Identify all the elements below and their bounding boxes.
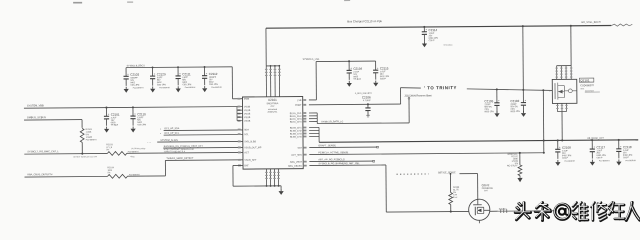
svg-text:2839S2GL: 2839S2GL <box>268 112 279 114</box>
watermark 狂 <box>609 202 625 219</box>
svg-text:SCL: SCL <box>244 134 249 136</box>
wire gate drop <box>477 174 479 200</box>
svg-text:C0G-JPN: C0G-JPN <box>130 85 139 87</box>
capacitor C2103 <box>123 68 139 87</box>
svg-text:NO STUFF: NO STUFF <box>507 165 519 167</box>
wire to Q2102 gate <box>459 173 477 175</box>
svg-text:LSB: LSB <box>297 100 302 102</box>
svg-text:Bus Charged C2113 on Ppk: Bus Charged C2113 on Ppk <box>347 19 382 23</box>
wire KBA_CBUS_DETECT left <box>24 175 107 178</box>
wire bypass cap tie line <box>126 66 232 69</box>
wire I2C3_AP_SCL <box>164 134 243 137</box>
svg-text:BACKBOA_RG_P23BCLG_CBCE_DET: BACKBOA_RG_P23BCLG_CBCE_DET <box>164 145 204 148</box>
svg-text:0603-JPN: 0603-JPN <box>510 111 520 113</box>
capacitor C2106 <box>367 104 369 108</box>
wire rail to wireA at C2102 <box>522 26 525 90</box>
wire ABT_AP_RG_P23BCLG <box>309 160 373 163</box>
ground C2105 <box>494 111 499 117</box>
wire rail B <box>319 140 638 143</box>
wire Q2102 bottom stub <box>478 220 480 223</box>
svg-text:BLKA_CH2: BLKA_CH2 <box>290 115 302 118</box>
ground C2101 <box>104 127 109 133</box>
svg-text:C0G-JPN: C0G-JPN <box>182 84 191 86</box>
svg-text:5%: 5% <box>106 149 109 151</box>
resistor R2105 body <box>449 192 453 204</box>
watermark 人 <box>626 202 640 220</box>
svg-text:C2108: C2108 <box>562 146 571 150</box>
svg-text:SMBUS_SCBUS: SMBUS_SCBUS <box>27 116 46 119</box>
node SYSTEM_VBB/C2110 <box>132 106 134 108</box>
capacitor C2111 <box>175 67 191 86</box>
ground C2108 <box>555 160 560 166</box>
wire SMBUS_SCBUS <box>24 119 82 121</box>
ground C2104 <box>347 81 352 87</box>
svg-text:SYB_SLBB: SYB_SLBB <box>244 141 256 143</box>
capacitor C2101 <box>104 107 120 126</box>
wire Q2101 source to railB <box>561 112 563 141</box>
ground C2112 <box>202 86 207 92</box>
svg-text:C2111: C2111 <box>182 72 191 76</box>
wire BAPMERG down <box>385 165 387 212</box>
svg-text:a: a <box>160 133 161 135</box>
svg-text:ABG_CBLBG: ABG_CBLBG <box>288 165 302 168</box>
wire BLKA bracket <box>316 113 318 124</box>
node tie/C2112 <box>204 66 206 68</box>
wire SMBUS to R2101 <box>81 120 83 128</box>
svg-text:C2110: C2110 <box>137 112 146 116</box>
node railB/C2117 <box>591 139 593 141</box>
svg-text:BLKA_CH3: BLKA_CH3 <box>290 118 302 121</box>
capacitor C2102 <box>510 90 526 113</box>
wire P23BCLA_ACTIVE_SENSE <box>309 153 543 155</box>
node wireA branch <box>542 89 544 91</box>
node R2101/CNT net <box>81 153 83 155</box>
ground C2129 <box>150 86 155 92</box>
resistor R2103 <box>107 151 127 155</box>
svg-text:SYSBCLB_BATR_LG: SYSBCLB_BATR_LG <box>321 120 343 123</box>
svg-text:Poo-BBRHH: Poo-BBRHH <box>159 87 170 89</box>
svg-text:C2115: C2115 <box>380 66 389 70</box>
node railB/C2108 <box>557 139 559 141</box>
wire off-page squiggle <box>611 24 632 26</box>
wire R2104 to corner <box>127 175 165 177</box>
capacitor C2108 <box>555 140 572 159</box>
svg-text:Poo-BBRHH: Poo-BBRHH <box>211 87 222 89</box>
svg-text:C06-P: C06-P <box>429 40 436 42</box>
svg-text:C06-P: C06-P <box>623 157 630 159</box>
svg-text:Poo-BBRHH: Poo-BBRHH <box>625 160 636 162</box>
svg-text:ABT_AP_RG_P23BCLG: ABT_AP_RG_P23BCLG <box>318 158 344 161</box>
watermark @ <box>554 204 570 220</box>
capacitor C2112 <box>202 67 218 86</box>
svg-text:Poo-BBRHH: Poo-BBRHH <box>86 139 97 141</box>
svg-text:4.7U/XF: 4.7U/XF <box>363 100 372 102</box>
svg-text:DETECT WHEN I2C xxx OFF: DETECT WHEN I2C xxx OFF <box>73 156 98 158</box>
svg-text:C2129: C2129 <box>157 72 166 76</box>
svg-text:SYSBCLT_RG_BWC_CNT_L: SYSBCLT_RG_BWC_CNT_L <box>27 150 59 153</box>
svg-text:S/GB11: S/GB11 <box>499 209 508 211</box>
Q2102 source/drain exits <box>484 209 490 211</box>
wire CNT net to ACT pin <box>127 151 243 154</box>
svg-text:C2102: C2102 <box>510 99 519 103</box>
node tie/C2104 <box>348 60 350 62</box>
fuse ticks <box>498 209 557 213</box>
wire BAT/bottom bus <box>233 164 243 166</box>
node ACTIVE corner <box>543 152 545 154</box>
svg-text:VSUB: VSUB <box>244 117 251 119</box>
wire dashed GBT/GE_SENSE <box>396 173 428 175</box>
svg-text:C06-P: C06-P <box>380 78 387 80</box>
Q2102 symbol <box>473 199 482 205</box>
capacitor C2104 <box>346 61 362 81</box>
svg-text:SAT: SAT <box>297 147 302 150</box>
ground C2110 <box>131 126 136 132</box>
wire SYSBCLB_RG_BAPMERG_ABT_CBL <box>309 164 385 167</box>
svg-text:PORT: PORT <box>295 105 302 107</box>
R2102 down arrow <box>519 176 521 178</box>
svg-text:C2101: C2101 <box>111 113 120 117</box>
node SYSTEM_VBB/C2101 <box>105 107 107 109</box>
node railB/C2118 <box>618 139 620 141</box>
svg-text:TP-BLR: TP-BLR <box>353 79 361 81</box>
svg-text:BLKB_CH4: BLKB_CH4 <box>290 137 302 139</box>
svg-text:Q2102: Q2102 <box>482 183 490 187</box>
svg-text:I2C3_AP_SDA: I2C3_AP_SDA <box>164 127 180 130</box>
svg-text:ACT: ACT <box>244 151 249 154</box>
svg-text:GBT/GE_SENSE: GBT/GE_SENSE <box>438 172 456 174</box>
svg-text:Poo-BBRHH: Poo-BBRHH <box>185 87 196 89</box>
svg-text:VSUB_OUT_MP: VSUB_OUT_MP <box>244 147 262 149</box>
svg-text:new-cdxxx: new-cdxxx <box>443 44 452 46</box>
ground C2114 <box>422 41 427 47</box>
svg-text:C2118: C2118 <box>623 145 632 149</box>
ground C2102 <box>521 111 526 117</box>
svg-text:VSUB: VSUB <box>244 121 251 123</box>
node ACTIVE/R2102 <box>519 152 521 154</box>
wire BATR up to J21 stub <box>408 99 410 123</box>
wire cap tie to PWB pin <box>231 67 233 99</box>
wire BLKB bracket <box>318 127 320 142</box>
node R2105/bottom wire <box>450 211 452 213</box>
svg-text:BAT: BAT <box>244 164 249 167</box>
wire PORT to TRINITY <box>309 103 401 106</box>
svg-text:C2103: C2103 <box>130 73 139 77</box>
svg-text:SYSBCLB_BBCS: SYSBCLB_BBCS <box>127 65 146 67</box>
svg-text:ACT_SNS: ACT_SNS <box>291 154 302 157</box>
svg-text:C2112: C2112 <box>209 72 218 76</box>
svg-text:C2106: C2106 <box>362 95 371 99</box>
node rail/Q2101 <box>570 25 572 27</box>
svg-text:J21(1)WH,Reserve Boot: J21(1)WH,Reserve Boot <box>404 94 431 97</box>
svg-text:P23BCLA_ACTIVE_SENSE: P23BCLA_ACTIVE_SENSE <box>318 151 348 154</box>
svg-text:Poo-BBRHH: Poo-BBRHH <box>133 87 144 89</box>
svg-text:ABG_VBAT: ABG_VBAT <box>290 161 303 164</box>
wire BAPMERG to Q2102 <box>386 210 468 213</box>
svg-text:Poo-BBRHH: Poo-BBRHH <box>564 161 575 163</box>
svg-text:TIARA TO KBD INT R A: TIARA TO KBD INT R A <box>164 150 186 153</box>
ground C2115 <box>373 81 378 87</box>
svg-text:TP-BLR: TP-BLR <box>111 125 119 127</box>
node rail/C2114 junction <box>423 26 425 28</box>
svg-text:SYSTEM_VBB: SYSTEM_VBB <box>27 104 44 107</box>
ground C2117 <box>590 160 595 166</box>
svg-text:BLKB_CH1: BLKB_CH1 <box>290 128 302 130</box>
ground C2118 <box>616 159 621 165</box>
node tie/C2129 <box>152 66 154 68</box>
wire top rail <box>266 26 611 29</box>
watermark 条 <box>535 202 551 221</box>
wire rail drop to U2101 top pins <box>265 28 267 66</box>
ground C2103 <box>124 87 129 93</box>
wire to ground <box>280 186 282 189</box>
wire R2101 to net <box>81 142 83 153</box>
transistor Q2101 <box>552 79 577 103</box>
ground U2101 <box>278 189 283 195</box>
node C2106 <box>367 103 369 105</box>
svg-text:PWB: PWB <box>244 99 250 101</box>
capacitor C2129 <box>150 67 166 86</box>
capacitor C2118 <box>616 140 633 159</box>
watermark 维 <box>573 202 588 221</box>
svg-text:- - -: - - - <box>147 141 151 144</box>
svg-text:SYSBCLG_LSG: SYSBCLG_LSG <box>303 59 320 61</box>
svg-text:GR_STGL_BRCH: GR_STGL_BRCH <box>581 21 601 24</box>
wire to R2102 <box>519 153 521 165</box>
node wireA/C2105 <box>496 88 498 90</box>
capacitor C2110 <box>130 107 146 126</box>
svg-text:BLKB_CH2: BLKB_CH2 <box>290 131 302 133</box>
svg-text:C2117: C2117 <box>596 145 605 149</box>
svg-text:C06-P: C06-P <box>597 157 604 159</box>
node wireA/C2102 <box>522 89 524 91</box>
svg-text:a: a <box>160 128 161 130</box>
wire A TRINITY to Q2101 <box>467 88 553 91</box>
U2101 bottom pins <box>265 169 267 186</box>
wire I2C3_AP_SDA <box>164 129 243 132</box>
svg-text:GRAFT_SENSE: GRAFT_SENSE <box>318 144 336 147</box>
Q2101 mosfet symbol <box>554 83 556 99</box>
transistor Q2102 <box>469 199 490 220</box>
scan specks <box>73 2 82 4</box>
svg-text:SM24765A: SM24765A <box>266 102 278 105</box>
watermark 修 <box>591 202 607 221</box>
node rail/C2102 branch <box>522 25 524 27</box>
svg-text:AB_BKGE_ACT: AB_BKGE_ACT <box>587 137 604 140</box>
svg-text:SYSTEM_ALIGN: SYSTEM_ALIGN <box>160 139 178 142</box>
ground C2111 <box>176 86 181 92</box>
node railB/Q2101 <box>561 139 563 141</box>
node tie/C2111 <box>177 66 179 68</box>
svg-text:VSUB: VSUB <box>244 110 251 112</box>
svg-text:TIARA/2_SMCE_DETECT: TIARA/2_SMCE_DETECT <box>166 157 194 160</box>
svg-text:3M?: 3M? <box>484 190 488 192</box>
resistor R2104 <box>107 174 127 178</box>
svg-text:C06-P: C06-P <box>562 158 569 160</box>
svg-text:5%: 5% <box>107 172 110 174</box>
U2101 top pins <box>265 66 267 97</box>
svg-text:Poo-BBRHH: Poo-BBRHH <box>599 160 610 162</box>
svg-text:SDA: SDA <box>244 128 249 131</box>
capacitor C2117 <box>590 140 607 159</box>
svg-text:C0G-JPN: C0G-JPN <box>137 124 146 126</box>
wire VSUB pin tie <box>236 107 238 121</box>
wire GRAFT_SENSE <box>309 146 377 149</box>
capacitor C2115 <box>373 61 390 81</box>
resistor R2105 <box>449 174 451 193</box>
svg-text:I2C3_AP_SCL: I2C3_AP_SCL <box>164 132 180 135</box>
wire SMCE net to VSUB_SET pin <box>165 159 243 162</box>
watermark 头 <box>515 202 531 220</box>
svg-text:VSUB: VSUB <box>244 114 251 116</box>
wire Q2102 out right <box>490 210 498 212</box>
svg-text:(4) OR khz pullup: (4) OR khz pullup <box>131 148 145 150</box>
wire SYSBCLB_BATR_LG <box>317 122 409 125</box>
svg-text:CSD68827#: CSD68827# <box>580 84 594 87</box>
wire SYSBCLT_RG_BWC_CNT_L left <box>24 152 107 155</box>
svg-text:VSUB: VSUB <box>244 106 251 108</box>
wire SYSTEM_VBB <box>24 107 243 109</box>
capacitor C2105 <box>484 89 500 113</box>
svg-text:' TO TRINITY: ' TO TRINITY <box>424 85 457 90</box>
svg-text:BLKA_CH1: BLKA_CH1 <box>290 112 302 115</box>
wire U2101 top pin tie <box>266 65 279 67</box>
svg-text:SYSBCLB_RG_BAPMERG_ABT_CBL: SYSBCLB_RG_BAPMERG_ABT_CBL <box>318 162 360 165</box>
resistor R2101 <box>80 128 84 142</box>
Q2101 bottom pins <box>556 103 558 111</box>
wire corner up to SMCE net <box>164 160 166 175</box>
wire LSB to bypass tie <box>309 99 316 101</box>
svg-text:C2105: C2105 <box>484 99 493 103</box>
svg-text:BLKA_CH4: BLKA_CH4 <box>290 121 302 124</box>
svg-text:C2114: C2114 <box>429 28 438 32</box>
svg-text:C2104: C2104 <box>353 67 362 71</box>
op-amp/charger IC U2101 <box>242 97 303 170</box>
wire CBCE_DET <box>163 146 243 149</box>
wire A down to ACTIVE sense <box>542 90 544 152</box>
svg-text:BLKB_CH3: BLKB_CH3 <box>290 134 302 136</box>
svg-text:KBA_CBUS_DETECT#: KBA_CBUS_DETECT# <box>27 173 53 176</box>
resistor R2102 <box>518 165 522 176</box>
U2101 right pins <box>303 99 306 101</box>
svg-text:C0G-JPN: C0G-JPN <box>157 84 166 86</box>
capacitor C2114 <box>422 27 439 42</box>
U2101 left pins <box>237 98 240 100</box>
svg-text:VSUB_SET: VSUB_SET <box>244 160 257 162</box>
node sense/R2105 <box>450 173 452 175</box>
svg-text:0603-JPN: 0603-JPN <box>484 111 494 113</box>
wire rail to Q2101 drain <box>570 26 572 66</box>
svg-text:C0G-JPN: C0G-JPN <box>209 84 218 86</box>
wire SYSTEM_ALIGN <box>157 140 243 143</box>
node railB/ACTIVE cross <box>543 139 545 141</box>
